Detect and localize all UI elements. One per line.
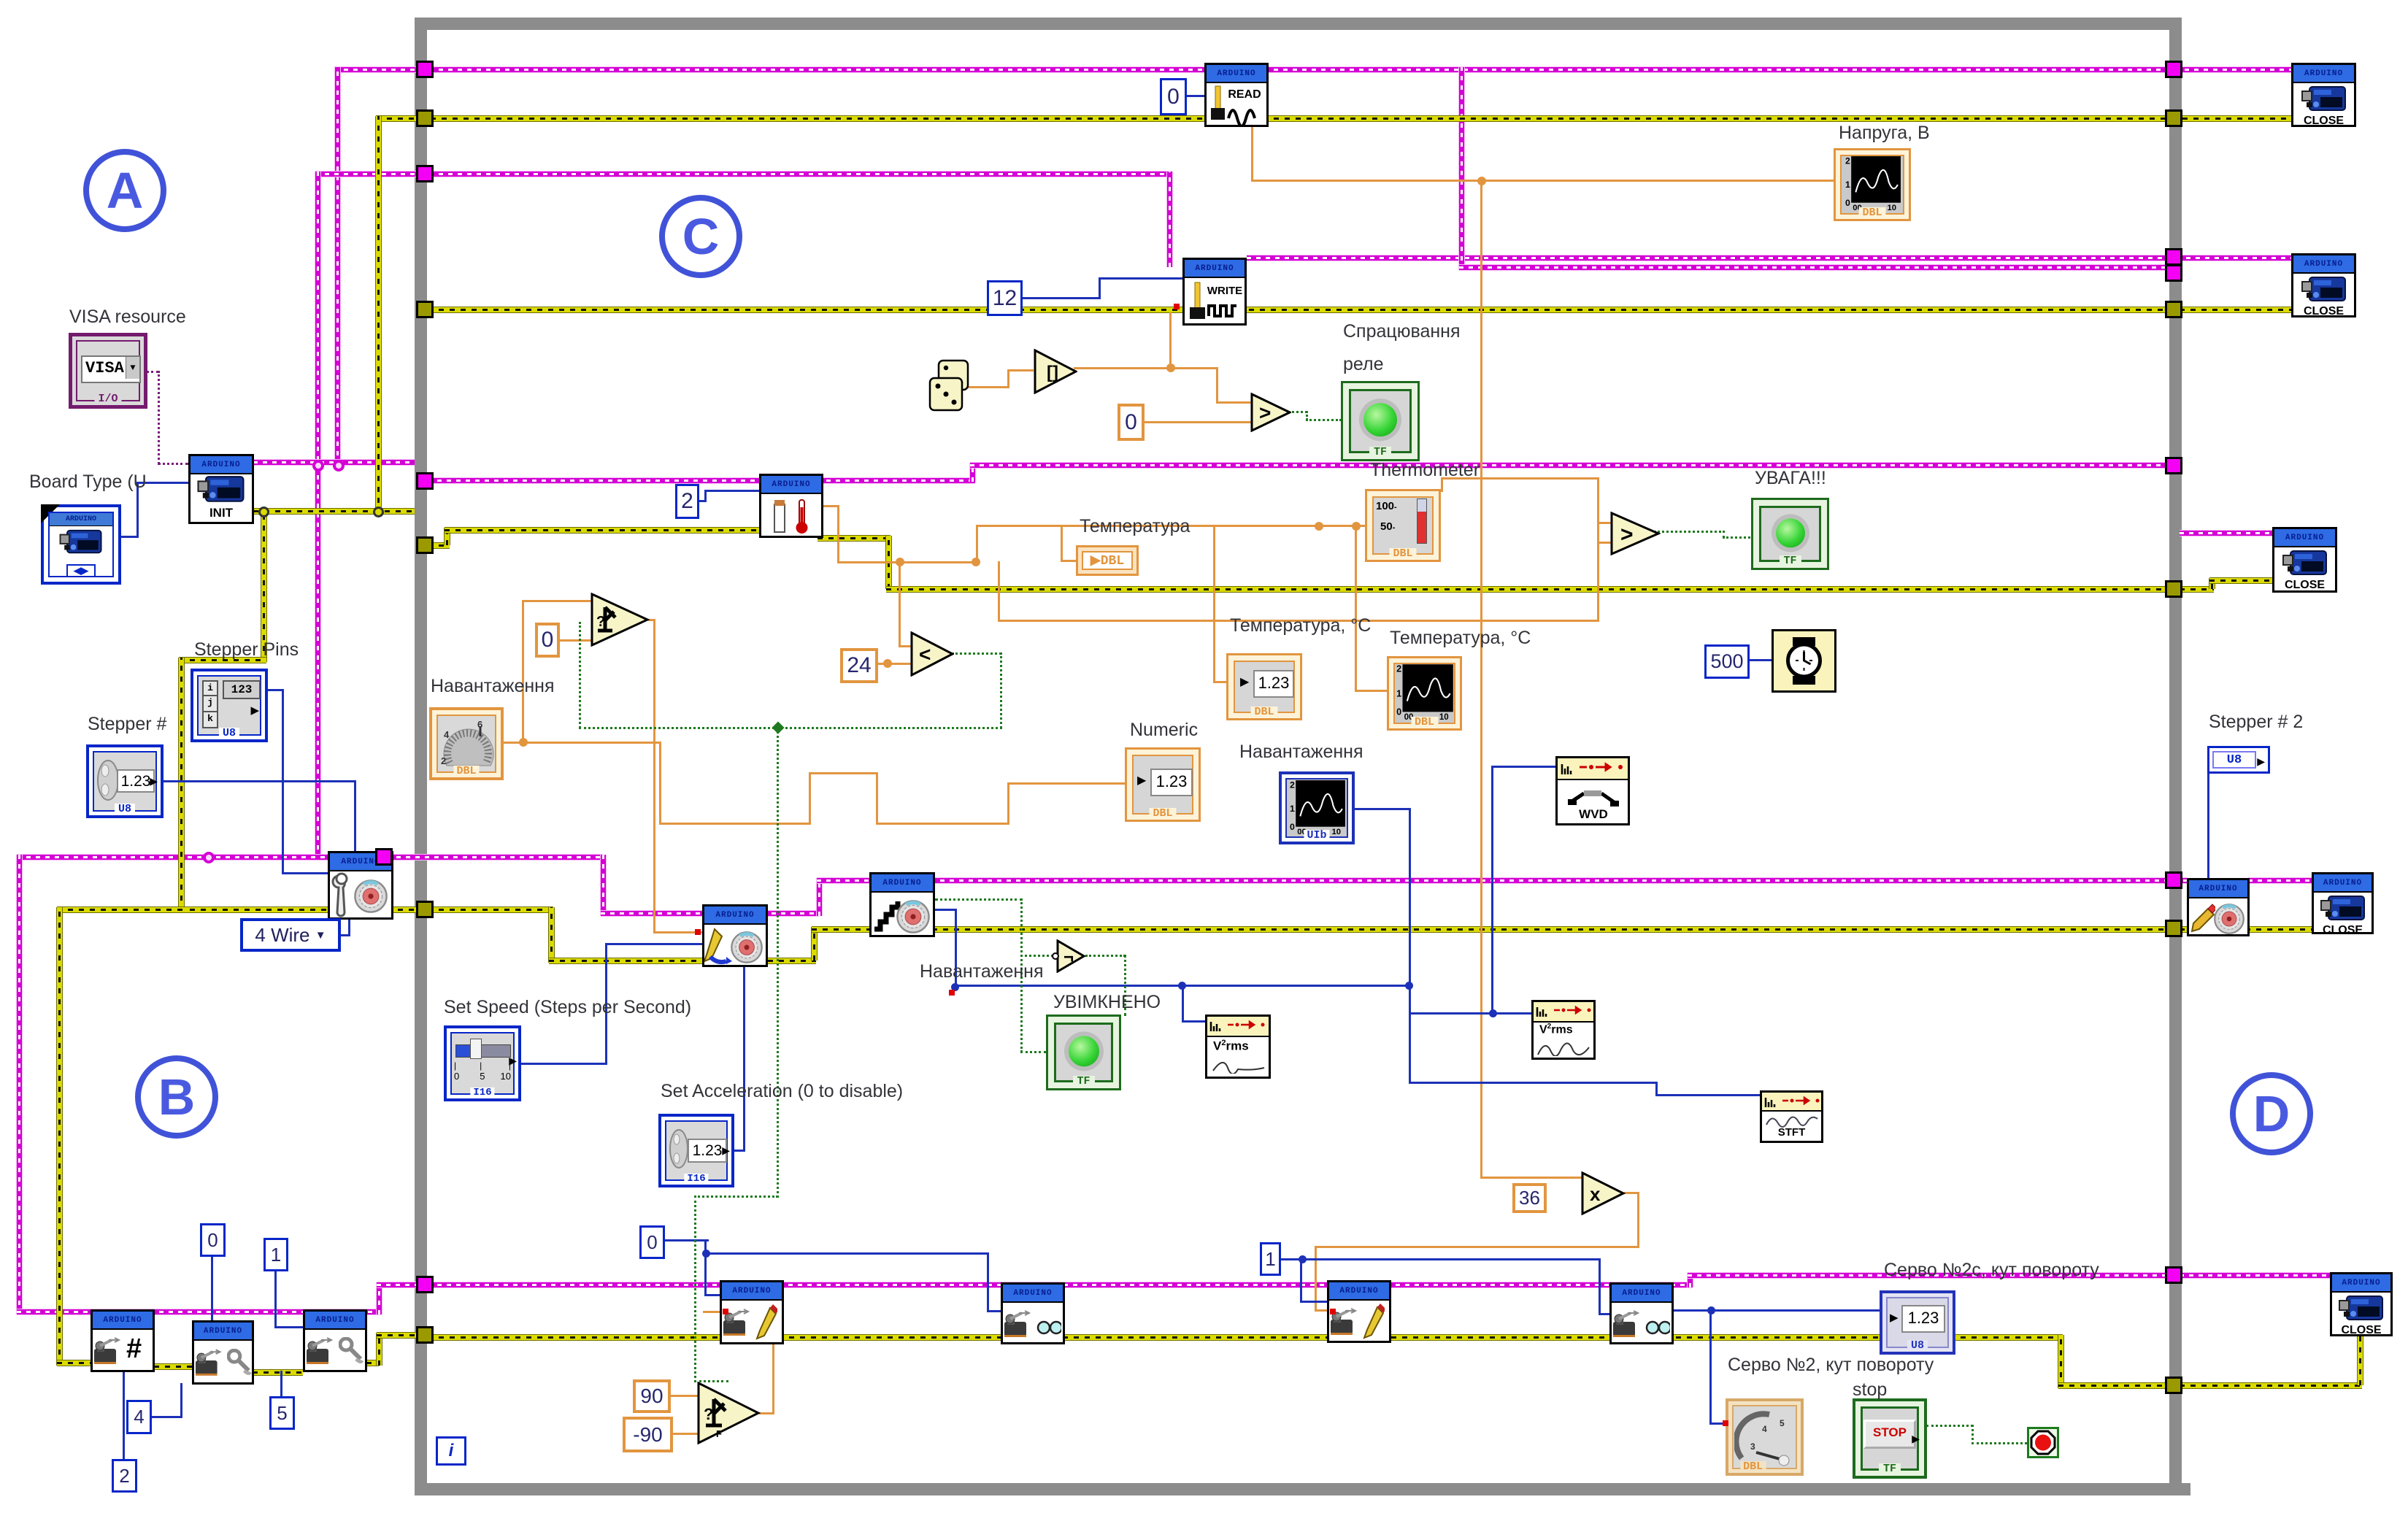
wire: green lt out y896 — [952, 652, 1001, 655]
node: comparator less-than — [910, 631, 954, 680]
wire: magenta M5 y1747 — [1688, 1273, 2174, 1278]
wire: orange dice out y530 — [968, 386, 1009, 388]
wire: green into NOT y1310 — [1020, 955, 1053, 957]
wire: orange WRITE input vertical x1604 — [1169, 312, 1172, 369]
wire: orange stair y1128 — [659, 823, 811, 825]
wire: green into LED3 y1442 — [1020, 1051, 1046, 1053]
wire: yellow y904 — [179, 658, 266, 663]
wire: yellow servo jog x519 — [377, 1333, 382, 1366]
constant 500 — [1704, 644, 1750, 679]
wire: blue 0 servo y1699 — [665, 1239, 709, 1241]
wire: magenta M4 y1206 — [817, 878, 2187, 883]
label Thermometer — [1370, 460, 1480, 481]
wire: orange vertical x1669 — [1216, 367, 1218, 404]
wire: orange stair v x1380 — [1007, 782, 1009, 825]
wire: blue into setSpeedNode y1293 — [605, 943, 702, 945]
label УВАГА — [1755, 468, 1826, 489]
wire: yellow Y2 jog x1217 — [886, 536, 891, 589]
node: VISA resource control — [69, 333, 147, 409]
wire: orange y504 right — [1169, 367, 1218, 369]
tunnel olive R11 — [2165, 1377, 2182, 1394]
wire: yellow Y5 right y1898 — [2180, 1383, 2362, 1388]
wire: orange stair v x1108 — [809, 772, 811, 825]
constant 0 (READ pin) — [1160, 78, 1187, 115]
svg-text:10: 10 — [1887, 204, 1896, 210]
node: ARDUINO servo write 1 — [720, 1280, 784, 1344]
wire: magenta M4 jog down x826 — [601, 855, 606, 916]
svg-text:2: 2 — [1845, 155, 1850, 166]
node: ARDUINO CLOSE 3 (mid right) — [2272, 527, 2337, 593]
tunnel magenta L1 — [416, 61, 434, 78]
label Напруга B — [1839, 123, 1930, 144]
node: Set Acceleration knob control — [658, 1114, 734, 1187]
tunnel magenta L9 — [416, 1276, 434, 1293]
tunnel magenta R8 — [2165, 871, 2182, 889]
node: dice (random) — [928, 359, 971, 420]
wire: blue const 0 v x291 — [211, 1257, 213, 1321]
junction orange (1216,910) — [883, 659, 892, 668]
red coercion gauge — [1723, 1420, 1728, 1426]
node: NOT gate — [1052, 939, 1090, 977]
wire: blue 4Wire y1281 — [341, 934, 350, 936]
label Серво 2с — [1884, 1260, 2099, 1281]
node: build array [] — [1034, 349, 1077, 398]
node: Серво №2с U8 indicator 1.23 — [1880, 1290, 1955, 1355]
wire: orange into setspeed y1279 — [653, 931, 702, 933]
node: ARDUINO CLOSE 1 (top right) — [2291, 63, 2356, 127]
magenta square on stepperConfig edge — [375, 848, 393, 866]
wire: magenta M5 jog x2315 — [1688, 1273, 1693, 1287]
tunnel olive L10 — [416, 1326, 434, 1344]
wire: yellow Y4 inside y1246 — [428, 907, 553, 912]
node: ARDUINO CLOSE 2 — [2291, 253, 2356, 317]
wire: blue Stepper#2 v x3026 — [2207, 771, 2209, 879]
svg-text:5: 5 — [1780, 1418, 1785, 1428]
junction blue (968,1717) — [702, 1250, 710, 1258]
wire: orange vertical x1858 — [1355, 525, 1357, 692]
node: ARDUINO servo read 2 — [1609, 1282, 1674, 1344]
wire: orange stair y1128b — [876, 823, 1009, 825]
node: Температура DBL express indicator — [1076, 545, 1139, 576]
svg-text:0: 0 — [1845, 198, 1850, 208]
node: V2rms 1 — [1205, 1015, 1271, 1079]
wire: purple VISA out — [146, 371, 159, 373]
node: ARDUINO thermo read — [759, 474, 823, 538]
node: LED УВІМКНЕНО — [1046, 1015, 1121, 1090]
junction magenta ring (285,1174) — [203, 852, 215, 863]
wire: orange vertical x1664 — [1213, 525, 1215, 683]
node: ARDUINO stepper to go — [869, 872, 935, 937]
wire: yellow servo link1 y1872 — [154, 1364, 192, 1369]
wire: blue const 2 v x170 — [123, 1371, 125, 1460]
wire: orange y656 — [1441, 477, 1599, 480]
wire: orange into temp123 y934 — [1213, 681, 1228, 683]
wire: blue 0 const to READ — [1186, 95, 1207, 97]
wire: orange long vertical x2030 — [1480, 180, 1482, 1179]
wire: orange vertical x1058 — [772, 1311, 774, 1414]
constant 0 (maxmin) — [535, 623, 560, 658]
wire: magenta M4 right y1206 — [2248, 878, 2312, 883]
wire: orange vertical x1147 — [837, 505, 839, 563]
label Температура С 2 — [1390, 628, 1531, 649]
svg-text:1: 1 — [1396, 688, 1401, 698]
svg-text:4: 4 — [1762, 1424, 1767, 1434]
wire: orange temp row y721 — [976, 525, 1365, 527]
wire: magenta M3 jog x1332 — [970, 463, 975, 482]
wire: orange select out y1936 — [759, 1412, 774, 1414]
label Температура — [1080, 516, 1190, 537]
wire: magenta M3 INIT row outside y633 — [253, 460, 415, 465]
wire: magenta M5 right to CLOSE5 — [2180, 1273, 2330, 1278]
wire: orange vertical x2191 — [1597, 477, 1599, 622]
wire: orange maxmin out y849 — [648, 619, 655, 621]
circled letter D — [2230, 1072, 2313, 1155]
wire: orange mult out y1634 — [1624, 1192, 1639, 1194]
label Навантаження (knob) — [431, 676, 555, 697]
svg-text:10: 10 — [1331, 828, 1341, 834]
wire: orange vertical x2243 — [1637, 1192, 1639, 1248]
wire: orange vertical x1370 — [998, 561, 1000, 621]
svg-text:>: > — [1259, 401, 1271, 424]
svg-text:1: 1 — [1290, 804, 1295, 814]
tunnel magenta R10 — [2165, 1266, 2182, 1284]
wire: orange into maxmin y823 — [522, 600, 593, 602]
circled letter C — [659, 195, 742, 278]
wire: yellow Y4 y1316 — [549, 958, 816, 963]
node: Board Type control — [41, 504, 121, 585]
wire: orange y1613 to mult — [1480, 1177, 1582, 1179]
node: ARDUINO servo write 2 — [1327, 1280, 1391, 1343]
wire: yellow Y2 INIT row y700 — [253, 509, 415, 514]
svg-text:<: < — [919, 643, 931, 666]
wire: orange stair y1059 — [809, 772, 878, 774]
wire: magenta vertical x1602 M2->WRITE — [1167, 172, 1172, 267]
node: ARDUINO stepper set speed — [702, 904, 768, 967]
constant 12 — [987, 280, 1023, 316]
svg-text:10: 10 — [1439, 713, 1449, 720]
wire: orange vertical x1382 — [1007, 369, 1009, 388]
wire: blue y1388 — [1409, 1012, 1494, 1015]
svg-text:?: ? — [704, 1405, 713, 1423]
wire: orange y1708 — [1315, 1246, 1639, 1248]
wire: yellow Y4 y1273 — [812, 927, 2174, 932]
red coercion servoW1 — [723, 1309, 728, 1314]
label stop — [1853, 1379, 1887, 1401]
node: 4 Wire dropdown — [240, 918, 341, 952]
wire: yellow corner y1243 81-248 — [57, 907, 184, 912]
wire: magenta M-B y370 — [1459, 265, 2174, 270]
node: comparator greater-than G1 — [1250, 393, 1291, 436]
wire: green gt1 to LED1 — [1287, 411, 1307, 413]
node: V2rms 2 — [1531, 1000, 1596, 1060]
wire: blue SetAccel y1576 — [734, 1150, 745, 1152]
wire: yellow Y2 inside y747 — [428, 543, 450, 548]
junction orange (717,1017) — [519, 738, 528, 747]
tunnel olive L6 — [416, 536, 434, 554]
wire: blue into thermoArduino y672 — [704, 490, 759, 492]
svg-text:?: ? — [596, 614, 605, 630]
wire: yellow Y5 inside y1832 — [428, 1335, 2063, 1340]
node: STOP button — [1853, 1398, 1927, 1479]
wire: yellow vertical x248 — [179, 658, 184, 912]
junction blue (1308,1352) — [951, 983, 959, 991]
constant 0 (servo) — [639, 1225, 665, 1259]
constant 36 — [1512, 1183, 1547, 1213]
wire: yellow Y4 into tunnel y1246 — [179, 907, 428, 912]
wire: blue 2 const y686 — [699, 500, 707, 502]
wire: yellow Y5 up x3233 to CLOSE5 — [2358, 1335, 2363, 1385]
node: LED Спрацювання реле — [1341, 381, 1420, 461]
wire: magenta M3 inside y637 — [970, 463, 2174, 468]
node: Stepper # control — [86, 744, 164, 818]
constant 24 — [840, 648, 878, 683]
wire: orange y851 — [998, 620, 1599, 622]
label Температура С 1 — [1230, 615, 1371, 636]
wire: orange 0 const to gt1 y578 — [1143, 421, 1253, 423]
wire: blue v x1505 — [1099, 277, 1101, 299]
node: select (servo) — [697, 1382, 761, 1448]
label УВІМКНЕНО — [1053, 992, 1161, 1013]
wire: blue into servoR2 y1800 — [1599, 1313, 1609, 1315]
wire: orange vertical x1337 — [976, 525, 978, 563]
wire: magenta vertical x26 — [17, 855, 22, 1314]
wire: blue 500 to clock — [1748, 659, 1773, 661]
wire: green stepperTogo out y1232 — [935, 898, 1023, 901]
svg-text:¬: ¬ — [1063, 947, 1074, 967]
node: ARDUINO servo configure 2 — [192, 1320, 254, 1385]
svg-text:F: F — [716, 1428, 722, 1439]
wire: blue into STFT y1500 — [1655, 1094, 1760, 1096]
wire: yellow vertical x361 — [261, 509, 266, 662]
node: LED УВАГА!!! — [1751, 498, 1829, 570]
wire: yellow Y5 y1898 — [2058, 1383, 2174, 1388]
wire: yellow Y3 row y807 — [886, 587, 2174, 592]
wire: magenta servo jog x519 — [377, 1282, 382, 1314]
constant 0 orange (relay) — [1118, 404, 1145, 441]
tunnel magenta R3 — [2165, 248, 2182, 266]
wire: blue main y1350 — [955, 985, 1411, 987]
wire: orange vertical x1233 to lt — [899, 561, 901, 647]
node: Температура °C waveform chart — [1387, 656, 1462, 731]
wire: yellow WRITE row right y424 — [2180, 307, 2291, 312]
tunnel magenta R4 — [2165, 264, 2182, 282]
wire: green gt2 to UVAGA y730 — [1654, 531, 1725, 533]
junction blue (1784,1725) — [1299, 1255, 1307, 1263]
label Серво 2 — [1728, 1355, 1934, 1376]
node: Навантаження knob — [429, 707, 504, 780]
wire: blue y381 into WRITE — [1099, 277, 1182, 280]
node: ARDUINO WRITE — [1182, 258, 1247, 326]
wire: magenta M5 to tunnel y1760 — [377, 1282, 428, 1287]
label Stepper Pins — [194, 639, 299, 661]
node: wait ms clock — [1772, 629, 1836, 693]
wire: yellow WRITE row y424 — [428, 307, 2165, 312]
junction orange (1337,770) — [972, 558, 980, 566]
tunnel olive R2 — [2165, 109, 2182, 127]
wire: green v x1066 — [777, 727, 779, 1198]
wire: magenta M1 top row y95 — [334, 67, 2291, 72]
wire: magenta M2 row y238 — [315, 172, 1172, 177]
wire: blue 1 const y1725 — [1281, 1258, 1304, 1260]
wire: blue Stepper# out y1070 — [162, 780, 356, 782]
tunnel magenta L3 — [416, 165, 434, 182]
node: STFT — [1760, 1090, 1823, 1143]
tunnel olive R9 — [2165, 920, 2182, 937]
wire: orange into gt2 y742 — [1597, 542, 1613, 544]
node: Numeric indicator 1.23 — [1125, 747, 1201, 822]
wire: blue servoR2 out y1795 — [1672, 1309, 1880, 1312]
wire: magenta M4 y1251 — [601, 911, 819, 916]
node: ARDUINO stepper close (right) — [2187, 878, 2250, 936]
label Stepper # — [88, 714, 166, 735]
wire: yellow Y3 to CLOSE3 y795 — [2209, 578, 2272, 583]
junction magenta ring (435,637) — [312, 460, 324, 471]
node: multiply — [1581, 1171, 1626, 1219]
wire: blue gauge feed v x2344 — [1709, 1309, 1712, 1424]
wire: orange vertical x717 up — [522, 600, 524, 743]
wire: orange 90 out — [671, 1395, 700, 1397]
junction blue (1619,1350) — [1178, 982, 1186, 990]
red coercion dots — [949, 990, 955, 996]
tunnel olive L8 — [416, 901, 434, 918]
node: comparator greater-than G2 (УВАГА) — [1610, 512, 1661, 559]
wire: blue into INIT y661 — [136, 482, 188, 484]
wire: blue into servoW2 y1783 — [1300, 1301, 1327, 1303]
wire: blue y1483 — [1409, 1082, 1658, 1084]
label Навантаження (DBL) — [920, 961, 1044, 982]
wire: orange into gt2 y714 — [1597, 522, 1613, 524]
wire: blue into servoW1 y1774 — [704, 1294, 720, 1296]
wire: magenta vertical x462 M1->M3 — [335, 67, 340, 465]
wire: orange vertical x1455 — [1061, 525, 1063, 562]
wire: orange long vertical x895 — [653, 619, 655, 933]
tunnel olive R7 — [2165, 580, 2182, 598]
tunnel magenta R6 — [2165, 457, 2182, 474]
wire: blue into V2rms1 y1399 — [1182, 1020, 1205, 1023]
node: loop condition stop sign — [2027, 1427, 2059, 1458]
wire: orange thermometer out up x1976 — [1441, 477, 1443, 492]
junction orange (1604,504) — [1166, 363, 1175, 372]
wire: orange [] out y504 — [1074, 367, 1172, 369]
wire: yellow Y2 jog x612 — [445, 528, 450, 545]
wire: blue chart out y1108 — [1355, 808, 1411, 810]
wire: orange thermoArduino out y693 — [820, 505, 839, 507]
tunnel olive R5 — [2165, 301, 2182, 318]
constant -90 — [623, 1417, 673, 1452]
wire: magenta M5 inside y1760 — [428, 1282, 1692, 1287]
wire: orange into servoW2 y1797 — [1315, 1309, 1329, 1312]
wire: blue into stepperConfig y1196 — [282, 872, 328, 874]
wire: yellow vertical x81 — [57, 907, 62, 1366]
label Set Speed — [444, 997, 691, 1018]
wire: orange 0 to maxmin y877 — [557, 639, 593, 642]
wire: orange into tempDBL y768 — [1061, 560, 1077, 562]
node: ARDUINO stepper configure — [328, 851, 393, 920]
node: ARDUINO CLOSE 4 (stepper) — [2312, 872, 2374, 934]
wire: blue BoardType y735 — [120, 536, 139, 538]
label Stepper # 2 — [2209, 712, 2303, 733]
svg-text:4: 4 — [444, 729, 450, 740]
node: Напруга B waveform chart — [1834, 148, 1911, 221]
wire: yellow Y3 jog x3030 — [2209, 578, 2215, 589]
wire: blue SetSpeed slider y1457 — [520, 1063, 607, 1065]
wire: yellow vertical x518 Y1->Y2 — [376, 116, 381, 514]
svg-text:x: x — [1590, 1183, 1601, 1205]
svg-text:>: > — [1620, 523, 1634, 547]
node: ARDUINO servo set # — [91, 1309, 155, 1372]
wire: orange stair v x1200 — [876, 772, 878, 825]
wire: yellow Y2 y726 to thermo node — [445, 528, 763, 533]
wire: green y1639 — [694, 1196, 778, 1198]
wire: yellow servo link2 y1880 — [253, 1370, 303, 1375]
wire: blue into servoR1 y1797 — [987, 1310, 1001, 1312]
wire: yellow servo link3 y1867 — [366, 1360, 379, 1366]
wire: blue 12 out y408 — [1023, 297, 1101, 299]
svg-text:[]: [] — [1047, 363, 1058, 382]
constant 90 — [633, 1379, 671, 1413]
wire: orange READ down x1716 — [1251, 126, 1253, 182]
wire: yellow Y1 top row y162 — [376, 116, 2291, 121]
tunnel magenta R1 — [2165, 61, 2182, 78]
junction green (1066,997) — [772, 722, 785, 734]
wire: blue const 4 y1941 — [152, 1416, 182, 1418]
wire: magenta vertical x2002 M1->M-B — [1459, 67, 1464, 270]
wire: orange into gt1 y552 — [1216, 401, 1253, 404]
node: ARDUINO CLOSE 5 (servo) — [2330, 1272, 2393, 1336]
node: Set Speed slider control — [444, 1025, 521, 1101]
junction yellow ring (518,700) — [373, 507, 384, 517]
wire: blue into V2rms2 y1388 — [1491, 1012, 1531, 1015]
tunnel olive L2 — [416, 109, 434, 127]
wire: magenta M3 inside y659 — [428, 478, 975, 483]
svg-text:2: 2 — [441, 755, 446, 766]
wire: blue const 1 v x378 — [274, 1271, 277, 1328]
svg-text:WRITE: WRITE — [1207, 285, 1242, 297]
junction orange (1858,721) — [1352, 522, 1361, 531]
svg-text:1: 1 — [1845, 180, 1850, 190]
wire: magenta servo chain y1797 — [17, 1309, 381, 1314]
constant 1 (servo) — [1260, 1242, 1281, 1276]
red coercion servoW2 — [1330, 1309, 1336, 1314]
node: Stepper Pins cluster control — [191, 669, 268, 742]
wire: green NOT out — [1085, 955, 1126, 957]
wire: orange y247 to chart — [1251, 180, 1834, 182]
label Numeric — [1130, 720, 1198, 741]
wire: orange into tempchart y946 — [1355, 690, 1388, 692]
wire: green into select y1893 — [694, 1380, 728, 1382]
circled letter A — [83, 149, 166, 232]
wire: magenta M4 jog up x1122 — [817, 878, 822, 916]
wire: orange vertical x1804 — [1315, 1246, 1317, 1312]
wire: blue v x2045 WVD — [1491, 766, 1493, 1014]
node: Серво №2 gauge — [1726, 1398, 1804, 1476]
node: max-min select triangle — [591, 593, 650, 650]
wire: orange stair y1073 to Numeric — [1007, 782, 1125, 785]
wire: yellow Y4 jog x755 — [549, 907, 554, 963]
wire: orange y1797 into servoW1 — [703, 1311, 774, 1313]
circled letter B — [135, 1055, 218, 1139]
svg-text:0: 0 — [1290, 822, 1295, 832]
wire: orange y770 — [837, 561, 978, 563]
junction blue (2344,1795) — [1707, 1306, 1715, 1314]
wire: blue StepperPins out y945 — [266, 689, 284, 691]
wire: magenta M-A WRITE out y353 — [1247, 255, 2291, 261]
junction orange (1233,770) — [896, 558, 904, 566]
junction blue (2045,1388) — [1489, 1009, 1497, 1017]
node: ARDUINO INIT U1 — [188, 454, 254, 524]
wire: yellow servo row y1867 left — [57, 1360, 108, 1366]
node: ARDUINO READ — [1204, 63, 1269, 127]
